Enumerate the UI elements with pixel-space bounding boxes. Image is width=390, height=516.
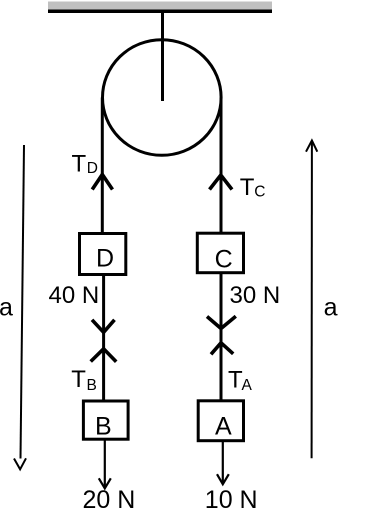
acceleration arrow right (up) (306, 141, 317, 459)
pulley hanger rod (161, 13, 164, 101)
ceiling bar underline (black) (48, 10, 272, 14)
wire: rope block D to block B (102, 276, 105, 400)
svg-text:C: C (254, 184, 265, 201)
weight arrow 10N (down) (217, 442, 229, 484)
svg-text:T: T (71, 366, 86, 393)
cut arrowhead right down (207, 316, 236, 328)
svg-text:A: A (215, 413, 232, 441)
svg-text:a: a (0, 293, 13, 321)
weight arrow 20N (down) (99, 441, 111, 489)
svg-text:D: D (87, 160, 98, 177)
svg-text:30 N: 30 N (230, 282, 281, 309)
svg-text:A: A (242, 377, 253, 394)
label 20 N (83, 486, 136, 514)
svg-text:20 N: 20 N (83, 486, 136, 514)
svg-text:a: a (324, 293, 338, 321)
svg-text:B: B (87, 377, 97, 394)
block B (83, 401, 128, 441)
wire: rope block C to block A (220, 274, 223, 400)
label a right (324, 293, 338, 321)
svg-text:C: C (215, 246, 233, 274)
cut arrowhead right up (211, 343, 233, 355)
svg-text:40 N: 40 N (49, 282, 100, 309)
label 10 N (205, 486, 258, 514)
label a left (0, 293, 13, 321)
block A (198, 401, 243, 441)
svg-text:B: B (95, 413, 112, 441)
block C (197, 233, 243, 273)
tension arrowhead TD (up) (92, 175, 112, 190)
cut arrowhead left up (91, 349, 117, 362)
svg-text:T: T (240, 174, 255, 201)
tension arrowhead TC (up) (210, 175, 233, 190)
svg-text:T: T (72, 150, 87, 177)
label TA (228, 367, 253, 395)
label TC (240, 174, 266, 201)
wire: right rope pulley to block C (220, 98, 223, 235)
label TB (71, 366, 97, 394)
svg-text:D: D (96, 245, 114, 273)
wire: left rope pulley to block D (101, 98, 104, 235)
ceiling bar (gray) (48, 2, 272, 10)
label 30 N (230, 282, 281, 309)
svg-text:10 N: 10 N (205, 486, 258, 514)
label 40 N (49, 282, 100, 309)
pulley (103, 40, 222, 156)
acceleration arrow left (down) (14, 145, 26, 469)
cut arrowhead left down (92, 320, 115, 333)
block D (80, 234, 126, 275)
label TD (72, 150, 99, 177)
